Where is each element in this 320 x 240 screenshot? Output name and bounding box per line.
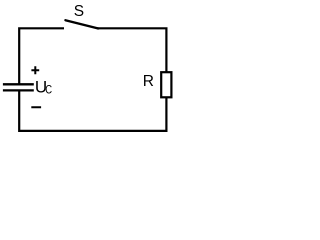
svg-text:C: C [45,84,52,96]
svg-text:S: S [74,3,84,20]
svg-text:R: R [143,73,154,90]
